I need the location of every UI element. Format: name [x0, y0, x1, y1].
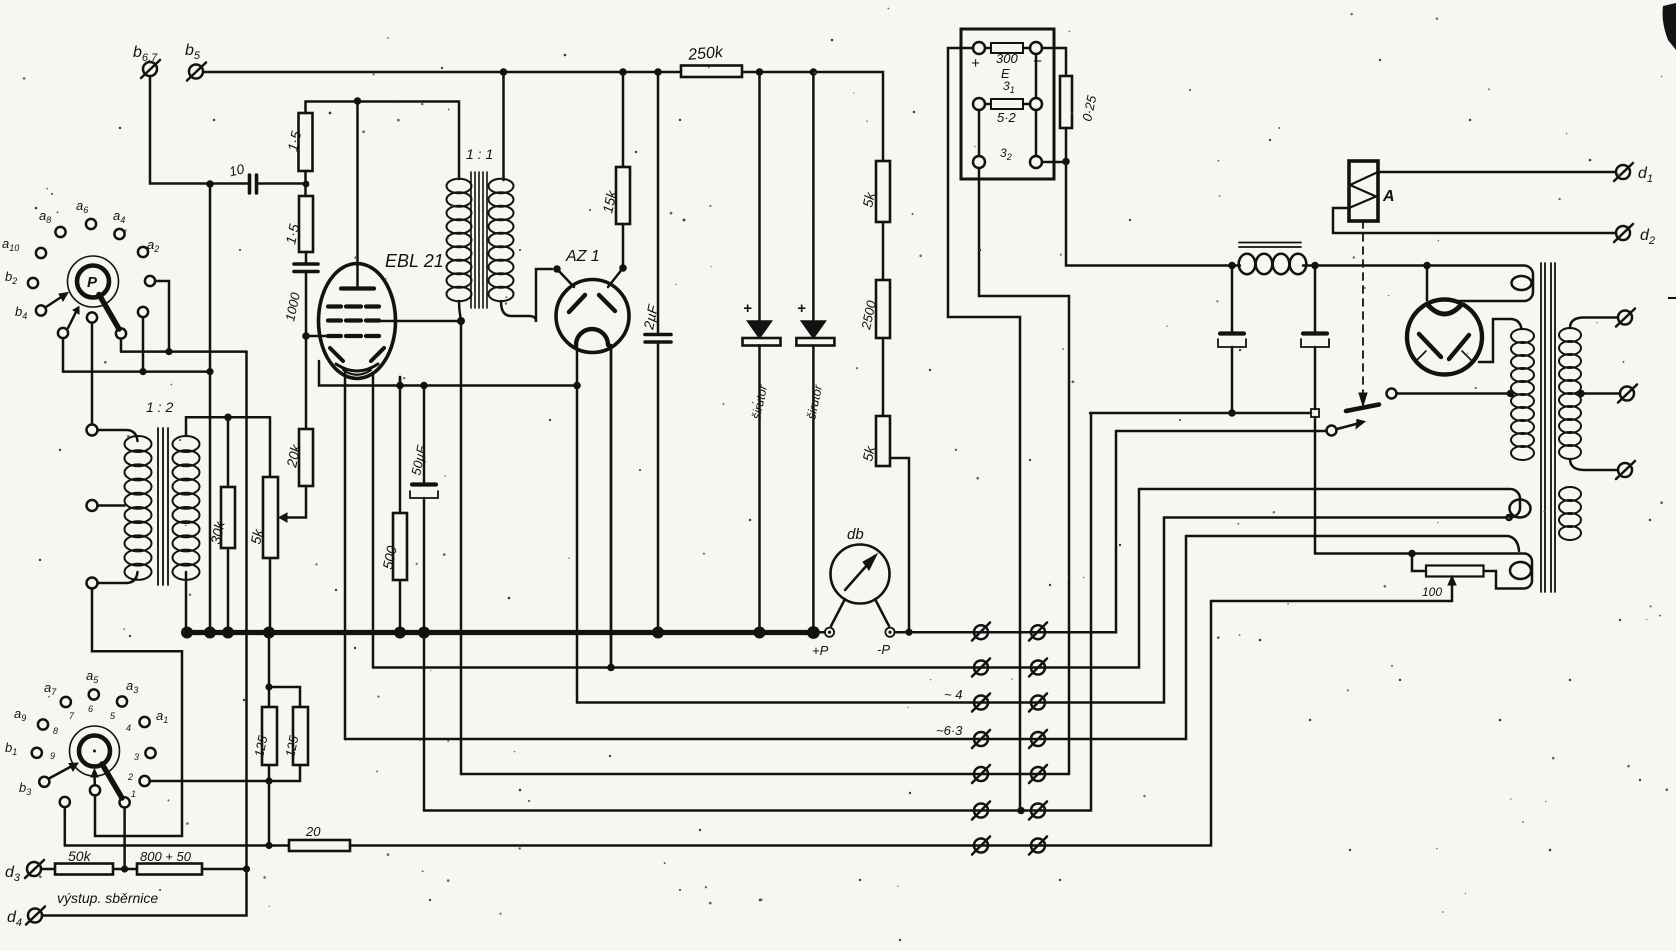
wire 125 bottoms to socket pin2 — [150, 780, 300, 783]
wire socket rail y351 — [121, 350, 247, 353]
lower socket ring — [79, 736, 110, 767]
terminal b6,7 — [141, 60, 160, 78]
transformer 1:2 secondary coil — [173, 436, 200, 580]
terminal socket row — [1029, 837, 1047, 855]
pin a1 — [140, 717, 150, 727]
transformer 1:2 primary terminal 2 — [87, 500, 98, 511]
capacitor C 2uF — [657, 72, 660, 633]
svg-text:300: 300 — [996, 51, 1018, 66]
terminal socket row — [972, 623, 990, 641]
svg-text:20: 20 — [305, 824, 321, 839]
wire AZ1 filament right to row2 — [610, 345, 613, 668]
pin a8 — [55, 227, 65, 237]
wire 1:2 secondary top to 30k/5k rail — [186, 417, 270, 436]
EBL21 grid row 1 — [328, 304, 379, 308]
wire — [882, 338, 885, 416]
pin b2 — [28, 278, 38, 288]
wire — [305, 252, 308, 262]
wire heater row y489 into loop — [1139, 489, 1520, 518]
capacitor C 1000 — [294, 264, 318, 272]
svg-text:+: + — [743, 300, 752, 317]
wire heater row y517 — [1164, 516, 1509, 519]
pin bottom-left — [58, 328, 68, 338]
switch lower arrow — [1337, 424, 1356, 429]
wire pin arm down — [120, 339, 123, 352]
resistor R 5k (upper) — [876, 161, 890, 222]
wire battery row3 left down jog to row5 — [979, 168, 1069, 774]
tube AZ1 envelope — [556, 280, 629, 353]
wire cap10 to 1.5 column — [258, 182, 306, 185]
terminal d4 — [26, 907, 45, 925]
pin 3 o'clock — [145, 748, 155, 758]
wire 1:2 secondary bottom to bus — [185, 572, 188, 633]
wire relay to d1 — [1378, 171, 1616, 174]
wire pin right2 down — [142, 317, 145, 371]
pin a4 — [114, 229, 124, 239]
wire pot row y553 with end loop — [1315, 554, 1532, 589]
wire AZ1 filament left to row3 — [576, 345, 579, 703]
lower socket arrow 2 — [93, 776, 96, 785]
terminal secondary bottom — [1616, 461, 1635, 479]
svg-text:+P: +P — [812, 643, 829, 658]
transformer 1:2 primary coil — [125, 436, 152, 580]
EBL21 heater arc outer — [336, 364, 378, 371]
wire battery row3 right link — [1042, 161, 1066, 164]
battery link row2 — [985, 103, 1030, 106]
wire choke to output transformer primary entry — [1303, 266, 1533, 302]
bus dots — [181, 627, 193, 639]
sirutor 2 — [796, 72, 834, 633]
wire bus end to +P — [816, 631, 825, 634]
terminal socket row — [972, 837, 990, 855]
junction dots — [206, 180, 214, 188]
pin a9 — [38, 719, 48, 729]
switch common square — [1311, 409, 1319, 417]
capacitor C filter right — [1301, 266, 1329, 410]
wire pin center-bottom to transformer 1:2 — [91, 323, 94, 425]
wire output bus row y869 — [41, 868, 247, 871]
EBL21 anode bar — [341, 286, 374, 290]
svg-text:1 : 2: 1 : 2 — [146, 399, 173, 415]
pin a7 — [61, 697, 71, 707]
battery terminal row2 left — [973, 98, 985, 110]
wire pin bottom-left down — [62, 338, 65, 371]
tube output envelope — [1407, 300, 1482, 375]
output tube electrode right — [1449, 335, 1469, 359]
battery inner wires — [979, 54, 1036, 156]
wire terminal3 loop around lower socket — [92, 589, 182, 837]
wire from b6,7 down to cap 10 row — [150, 76, 248, 184]
wire b5 top rail y72 — [203, 72, 883, 161]
terminal socket row — [1029, 765, 1047, 783]
wire long vertical x246 to output bus junction — [245, 352, 248, 869]
wire 1:1 secondary bottom to AZ1 anode — [501, 269, 552, 322]
meter db circle — [831, 545, 890, 604]
output transformer core — [1541, 263, 1555, 592]
resistor R 2500 — [876, 280, 890, 338]
wire output tube top — [1426, 266, 1429, 301]
svg-text:A: A — [1382, 188, 1395, 205]
terminal secondary mid — [1618, 385, 1637, 403]
fuse 0.25 — [1060, 76, 1072, 128]
pin b4 — [36, 305, 46, 315]
wire pin bottom-left to row7 — [64, 807, 67, 845]
wire 15k-column tap to row2 — [610, 345, 613, 668]
choke coil — [1239, 254, 1256, 274]
wire row y413 — [1090, 412, 1311, 415]
lower socket arm — [102, 764, 122, 798]
wire pin1 to 50k junction — [123, 808, 126, 869]
svg-text:~ 4: ~ 4 — [944, 687, 962, 702]
tube socket P outer circle — [68, 256, 119, 307]
wire EBL21 grid2 to 1:1 secondary bottom — [366, 320, 461, 323]
svg-text:-P: -P — [877, 642, 890, 657]
wire heater row y536 into winding — [1186, 536, 1519, 551]
svg-text:1 : 1: 1 : 1 — [466, 146, 493, 162]
pin a10 — [36, 248, 46, 258]
svg-text:~6·3: ~6·3 — [936, 723, 963, 738]
wire anode lead — [356, 101, 359, 289]
EBL21 cathode stroke left — [330, 348, 343, 361]
svg-text:5·2: 5·2 — [997, 110, 1017, 125]
transformer 1:2 primary terminal 1 — [87, 425, 98, 436]
other dots — [265, 683, 272, 690]
wire 1:1 secondary top — [502, 72, 505, 180]
wire EBL21 pin to row2 — [372, 376, 375, 668]
terminal d1 — [1614, 163, 1633, 181]
pin a2 — [138, 247, 148, 257]
wire output tube anode to primary top — [1479, 319, 1522, 362]
battery link row1 — [985, 47, 1030, 50]
wire EBL21 anode top rail y101 — [306, 102, 460, 180]
output tube electrode left — [1419, 334, 1441, 357]
wire terminal3 to coil — [98, 572, 138, 583]
svg-text:800 + 50: 800 + 50 — [140, 849, 192, 864]
tube EBL21 envelope — [319, 264, 396, 379]
transformer 1:1 primary coil — [447, 179, 472, 301]
output transformer primary winding — [1511, 329, 1534, 460]
resistor R 15k — [622, 72, 625, 268]
resistor R 30k — [227, 417, 230, 632]
pin b3 — [39, 777, 49, 787]
pin bottom — [90, 785, 100, 795]
resistor R 1.5 (upper) — [299, 113, 313, 171]
pin arm — [116, 328, 126, 338]
wire pot left feed — [1412, 554, 1426, 572]
wire socket rail y371 — [63, 370, 210, 373]
wire square down to pot row — [1314, 417, 1317, 554]
socket P arrow 2 — [68, 312, 76, 328]
pin 2 — [140, 776, 150, 786]
pin bottom-left — [60, 797, 70, 807]
socket P switch arm — [99, 295, 119, 330]
wire pin right L — [155, 281, 169, 352]
terminal socket row — [1029, 730, 1047, 748]
resistor R 5k (lower) — [876, 416, 890, 466]
wire EBL21 bottom box rail y385 — [319, 361, 577, 386]
terminal d2 — [1614, 224, 1633, 242]
output tube top cup — [1427, 304, 1462, 314]
scan artifact right edge — [1668, 297, 1676, 299]
wire row4 ~6.3 — [345, 536, 1186, 739]
tube socket P ring — [77, 266, 109, 298]
wire row2 — [373, 489, 1139, 668]
lower socket arrow 1 — [49, 766, 72, 779]
svg-text:AZ 1: AZ 1 — [565, 248, 600, 265]
resistor R 1.5 (lower) — [299, 196, 313, 252]
capacitor C 50uF — [423, 386, 426, 811]
wire — [882, 222, 885, 280]
wire relay to d2 — [1333, 208, 1616, 233]
pot wiper arrow — [1451, 584, 1454, 601]
resistor R 125 right — [269, 687, 300, 781]
terminal d3 — [25, 860, 44, 878]
pin a5 — [89, 689, 99, 699]
resistor R 20 — [289, 840, 350, 851]
wire 1000 down to grid and 20k — [305, 273, 308, 429]
wire d4 row — [42, 869, 247, 916]
battery terminal + — [973, 42, 985, 54]
pin 1 arm — [120, 797, 130, 807]
terminal socket row — [972, 802, 990, 820]
resistor R 125 left — [268, 633, 271, 846]
choke core — [1239, 243, 1301, 248]
svg-text:+: + — [797, 300, 806, 317]
switch contact upper — [1387, 389, 1397, 399]
svg-text:EBL 21: EBL 21 — [385, 251, 444, 271]
AZ1 filament arch — [576, 329, 608, 345]
pin b1 — [32, 748, 42, 758]
socket P arrow from b4 — [46, 297, 62, 308]
potentiometer R 5k — [269, 417, 272, 632]
wire grid tap into EBL21 — [306, 335, 330, 338]
pin right — [145, 276, 155, 286]
wire 1:1 primary bottom to grid node — [459, 301, 461, 321]
terminal socket row — [1029, 802, 1047, 820]
terminal -P — [885, 628, 894, 637]
svg-text:8: 8 — [53, 726, 58, 736]
switch blade — [1346, 405, 1379, 412]
wire -P to terminal row1 — [895, 431, 1116, 632]
wire vertical x210 — [209, 184, 212, 633]
wire — [304, 171, 307, 196]
svg-text:−: − — [1033, 53, 1042, 70]
wire EBL21 pin to row4 — [344, 373, 347, 739]
sirutor 1 — [743, 72, 781, 633]
relay A zigzag — [1349, 172, 1378, 208]
primary entry loop — [1512, 276, 1532, 290]
pin center-bottom — [87, 312, 97, 322]
battery terminal row2 right — [1030, 98, 1042, 110]
wire contact upper to primary tap — [1397, 392, 1511, 395]
svg-text:9: 9 — [50, 751, 55, 761]
svg-text:50k: 50k — [68, 848, 92, 864]
wire battery plus out left down to row6 — [948, 48, 1020, 811]
pot winding loop — [1510, 562, 1531, 579]
capacitor C filter left — [1218, 266, 1246, 414]
AZ1 anode left lead — [557, 269, 574, 287]
wire secondary top tap — [1570, 318, 1618, 329]
AZ1 anode right lead — [608, 268, 623, 287]
wire terminal2 to coil — [98, 504, 125, 507]
terminal socket row — [1029, 623, 1047, 641]
wire fuse down to choke rail — [1066, 128, 1240, 266]
svg-text:2: 2 — [127, 772, 133, 782]
terminal socket row — [1029, 694, 1047, 712]
svg-text:250k: 250k — [686, 44, 724, 64]
meter leg left — [831, 599, 845, 626]
transformer 1:1 secondary coil — [489, 179, 514, 301]
battery terminal row3 left — [973, 156, 985, 168]
battery terminal row3 right — [1030, 156, 1042, 168]
wire row7 — [65, 601, 1211, 846]
svg-text:db: db — [847, 526, 864, 543]
wire secondary center tap — [1581, 392, 1620, 395]
relay A box — [1349, 161, 1378, 221]
terminal b5 — [187, 63, 206, 81]
terminal socket row — [972, 659, 990, 677]
pin a6 — [86, 219, 96, 229]
pin right2 — [138, 307, 148, 317]
output transformer lower secondary winding — [1559, 487, 1581, 540]
ground bus (thick) — [184, 630, 817, 635]
wire 20k to 5k pot wiper arrow — [287, 486, 306, 518]
svg-text:4: 4 — [126, 723, 131, 733]
transformer 1:2 core — [158, 428, 168, 585]
meter needle — [845, 556, 875, 590]
terminal +P — [825, 628, 834, 637]
wire row5 — [461, 773, 1069, 776]
AZ1 anode right — [599, 295, 615, 311]
wire secondary bottom tap — [1570, 459, 1618, 470]
meter leg right — [875, 599, 889, 626]
terminal secondary top — [1616, 309, 1635, 327]
capacitor C 10 — [250, 175, 257, 193]
terminal socket row — [972, 765, 990, 783]
resistor R 20k — [299, 429, 313, 486]
wire row y431 — [1116, 430, 1327, 433]
AZ1 anode left — [569, 295, 585, 312]
svg-text:1: 1 — [131, 789, 136, 799]
battery block box — [961, 29, 1054, 179]
pin a3 — [117, 696, 127, 706]
wire 5k lower to -P node — [890, 458, 909, 632]
heater loop upper — [1510, 500, 1531, 518]
output transformer secondary winding — [1559, 328, 1581, 459]
lower socket outer circle — [70, 726, 120, 776]
terminal socket row — [1029, 659, 1047, 677]
wire EBL21 pin to 500 column — [399, 377, 402, 386]
resistor R 250k — [681, 66, 742, 78]
EBL21 cathode stroke right — [371, 348, 384, 361]
EBL21 grid row 2 — [328, 318, 379, 322]
scan artifact top right corner — [1663, 3, 1676, 50]
battery terminal - — [1030, 42, 1042, 54]
transformer 1:2 primary terminal 3 — [87, 578, 98, 589]
svg-text:+: + — [971, 55, 980, 72]
switch contact lower — [1327, 426, 1337, 436]
svg-text:6: 6 — [88, 704, 93, 714]
potentiometer R 100 — [1426, 566, 1484, 577]
wire row7 to wiper — [1211, 600, 1452, 603]
wire row3 ~4 — [577, 518, 1164, 703]
svg-text:100: 100 — [1422, 585, 1442, 599]
resistor R 50k — [55, 864, 113, 875]
transformer 1:1 core — [471, 172, 487, 308]
wire row6 — [424, 413, 1091, 811]
relay dashed actuator line — [1362, 221, 1364, 392]
EBL21 heater arc inner — [343, 370, 371, 375]
output tube thin leads — [1416, 351, 1473, 362]
wire long vertical grid node to row5 — [460, 321, 463, 774]
svg-text:výstup. sběrnice: výstup. sběrnice — [57, 890, 158, 906]
wire terminal1 to coil — [98, 430, 138, 441]
resistor R 800+50 — [137, 864, 202, 875]
svg-text:3: 3 — [134, 752, 139, 762]
resistor R 500 — [399, 377, 402, 633]
terminal socket row — [972, 694, 990, 712]
wire battery minus to fuse — [1042, 48, 1066, 76]
EBL21 grid row 3 — [328, 334, 379, 338]
svg-text:P: P — [87, 274, 98, 291]
terminal socket row — [972, 730, 990, 748]
